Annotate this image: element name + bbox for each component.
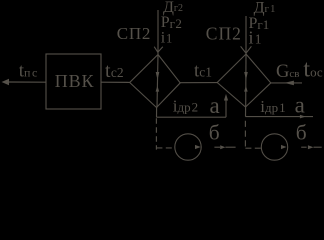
drain pump (right circle) [261, 134, 287, 160]
svg-text:iдр1: iдр1 [260, 97, 285, 116]
arrowhead: right pump discharge b [308, 145, 314, 149]
arrowhead (open V) at right heater top vertex [241, 46, 252, 53]
arrowhead: inside right pump [281, 145, 287, 149]
arrowhead: steam flow lower (left diamond) [156, 86, 160, 92]
svg-text:СП2: СП2 [117, 24, 151, 43]
wire: steam supply line to right heater [245, 16, 247, 54]
dashed wire: right drain down to pump [244, 121, 246, 147]
svg-text:i1: i1 [161, 30, 173, 47]
arrowhead: steam flow upper (left diamond) [156, 72, 160, 80]
svg-text:tс1: tс1 [194, 61, 212, 82]
arrowhead: left pump discharge b [220, 145, 225, 149]
arrowhead: inside left pump [195, 145, 201, 149]
dashed wire: left pump discharge (b) [214, 146, 220, 148]
wire: right heater drain down [245, 107, 247, 117]
wire: internal steam path of left heater [157, 55, 158, 108]
wire: boiler to heater SP2 [101, 81, 130, 83]
wire: up arrow shaft (a, left) [225, 99, 227, 117]
dashed wire: left drain down to pump [155, 118, 157, 149]
wire: boiler output to left [8, 81, 46, 83]
arrowhead: left output tps [2, 79, 10, 85]
wire: left drain header (a) [156, 116, 226, 118]
heater СП1 (right diamond) [217, 54, 271, 107]
dashed wire: right pump discharge (b) [301, 146, 306, 148]
arrowhead: steam flow upper (right diamond) [244, 72, 248, 80]
arrowhead: up arrow a (left) [224, 94, 228, 101]
arrowhead: right drain header a [300, 115, 306, 119]
wire: steam supply line to left heater [157, 10, 159, 54]
boiler box ПВК [46, 54, 101, 109]
wire: tc1 between heaters [180, 82, 217, 84]
wire: internal steam path of right heater [245, 54, 247, 107]
svg-text:СП2: СП2 [206, 24, 242, 44]
wire: left heater drain down [156, 108, 158, 118]
svg-text:б: б [209, 121, 220, 145]
svg-text:Рг2: Рг2 [161, 14, 183, 31]
dashed wire: left drain to pump horizontal [156, 147, 175, 149]
arrowhead: Gsv inlet (points left) [284, 81, 294, 86]
svg-text:а: а [295, 93, 305, 118]
svg-text:а: а [210, 93, 220, 118]
svg-text:ПВК: ПВК [55, 71, 95, 91]
wire: return water inlet Gsv [271, 82, 302, 84]
dashed wire: right drain to pump horizontal [245, 147, 261, 149]
heater СП2 (left diamond) [130, 55, 181, 108]
drain pump (left circle) [175, 134, 201, 160]
arrowhead (open V) at left heater top vertex [154, 47, 163, 53]
wire: right drain header (a) [245, 116, 313, 118]
svg-text:iдр2: iдр2 [173, 97, 198, 116]
svg-text:б: б [296, 121, 307, 145]
arrowhead: steam flow lower (right diamond) [244, 86, 248, 92]
